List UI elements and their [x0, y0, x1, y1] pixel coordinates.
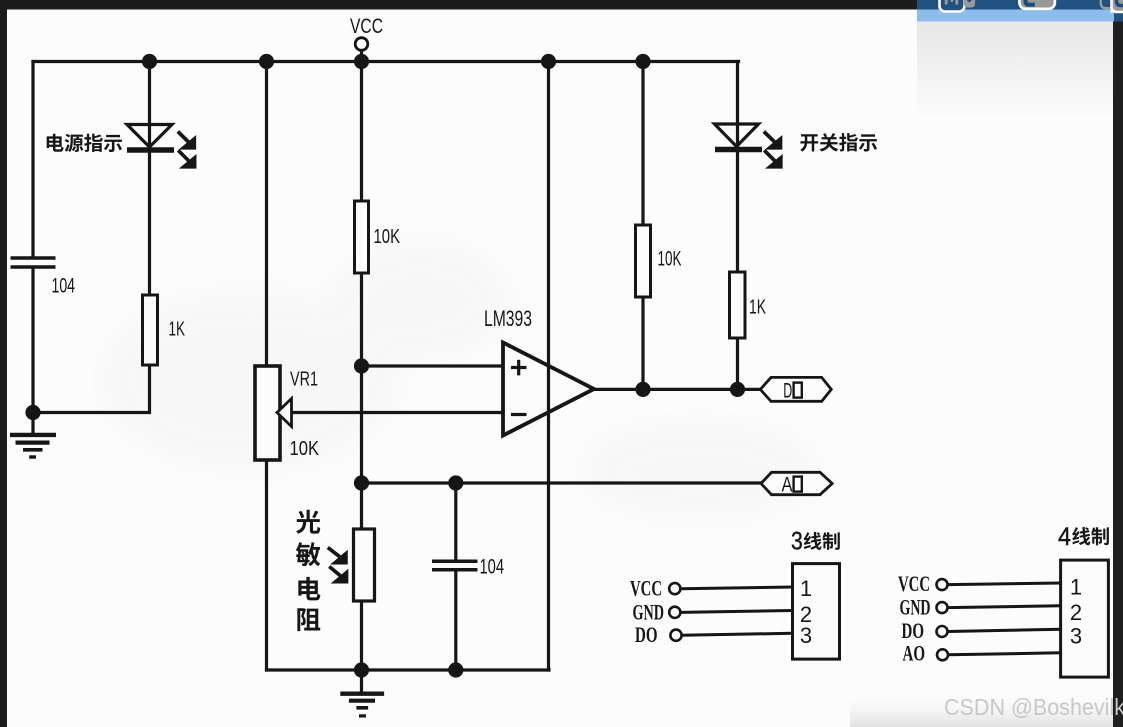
junction rail / op-amp power [541, 54, 556, 69]
wire LED D1 branch [148, 62, 151, 296]
svg-text:AO: AO [903, 641, 926, 666]
potentiometer VR1 body [255, 366, 280, 460]
svg-text:VCC: VCC [630, 576, 662, 601]
svg-text:3: 3 [800, 623, 812, 648]
junction bottom rail / C2 [448, 662, 463, 677]
wire VCC rail [33, 60, 739, 63]
wire J2 GND [948, 606, 1061, 608]
svg-text:A: A [782, 473, 794, 497]
junction rail / LED D1 [142, 54, 157, 69]
wire J1 GND [681, 611, 793, 613]
node AO tag [761, 472, 832, 494]
potentiometer VR1 wiper arrow [277, 399, 292, 427]
LED D1 cathode bar [127, 147, 174, 153]
connector J2 terminal AO [937, 649, 948, 660]
svg-text:10K: 10K [290, 438, 320, 460]
wire AO output [362, 481, 762, 484]
connector J1 3-wire box [793, 564, 840, 660]
junction DO / R4 [730, 382, 745, 397]
wire op-amp power feed [547, 62, 550, 671]
photoresistor light arrows [328, 548, 346, 563]
junction AO node [354, 475, 369, 490]
wire J1 DO [682, 633, 793, 635]
wire DO output [594, 388, 760, 391]
LED D1 triangle [127, 125, 172, 148]
wire C2 branch [454, 483, 457, 670]
connector J2 terminal GND [937, 602, 948, 613]
svg-text:CSDN @Boshevilk: CSDN @Boshevilk [944, 694, 1123, 720]
LED D2 light arrows [764, 132, 781, 148]
svg-text:GND: GND [633, 600, 665, 625]
svg-text:VCC: VCC [898, 571, 930, 596]
junction non-inverting input node [354, 358, 369, 373]
label 光敏电阻 [296, 510, 321, 631]
svg-text:3: 3 [1070, 624, 1082, 649]
svg-text:2: 2 [1070, 600, 1082, 625]
svg-text:104: 104 [480, 556, 505, 579]
wire non-inverting input [362, 364, 504, 367]
svg-text:DO: DO [902, 618, 925, 643]
wire R3 branch [641, 62, 644, 390]
connector J2 terminal VCC [937, 579, 948, 590]
ground GND2 [340, 694, 384, 716]
LED D2 triangle [715, 124, 759, 147]
capacitor C2 104 plates [432, 561, 478, 569]
toolbar icon 3 [1101, 0, 1123, 12]
ground GND1 [10, 435, 56, 457]
resistor R2 10K [355, 201, 369, 273]
wire J2 AO [948, 653, 1061, 655]
wire J2 DO [948, 629, 1061, 631]
junction bottom rail / LDR [354, 662, 369, 677]
svg-text:VCC: VCC [350, 15, 383, 38]
connector J1 terminal DO [670, 630, 681, 641]
resistor R1 1K [143, 295, 158, 365]
toolbar [0, 0, 919, 10]
junction ground node left [25, 405, 40, 420]
svg-text:1K: 1K [169, 319, 186, 341]
wire VCC middle branch [360, 51, 363, 692]
connector J1 terminal GND [669, 607, 680, 618]
node DO tag [760, 377, 831, 401]
junction rail / VCC node [354, 54, 369, 69]
svg-text:3: 3 [791, 528, 803, 556]
junction AO / C2 [448, 475, 463, 490]
LED D2 cathode bar [715, 147, 762, 153]
node VCC terminal [355, 38, 368, 51]
toolbar icon 1 [940, 0, 976, 12]
junction rail / VR1 [259, 54, 274, 69]
wire bottom rail [267, 668, 550, 671]
svg-text:GND: GND [900, 595, 931, 620]
photoresistor LDR body [354, 529, 375, 601]
label 开关指示 [800, 133, 877, 152]
svg-text:4: 4 [1058, 523, 1071, 551]
svg-text:10K: 10K [374, 226, 401, 248]
junction rail / R3 [635, 54, 650, 69]
wire J1 VCC [681, 587, 793, 589]
svg-text:LM393: LM393 [484, 306, 532, 331]
resistor R4 1K [730, 272, 746, 338]
op-amp U1 LM393 [503, 343, 594, 436]
label 电源指示 [47, 134, 122, 152]
svg-text:DO: DO [635, 622, 658, 647]
svg-text:104: 104 [52, 274, 76, 298]
wire R1 to ground node [33, 365, 150, 413]
toolbar icon 2 [1019, 0, 1055, 9]
connector J2 4-wire box [1061, 560, 1109, 677]
svg-text:1: 1 [1070, 575, 1082, 600]
wire LED D2 / R4 branch [736, 62, 739, 390]
resistor R3 10K [636, 225, 651, 297]
wire J2 VCC [948, 583, 1061, 585]
svg-text:D: D [783, 379, 792, 403]
op-amp plus input marker [511, 360, 527, 376]
connector J2 terminal DO [937, 626, 948, 637]
connector J1 terminal VCC [669, 583, 680, 594]
svg-text:10K: 10K [658, 248, 682, 271]
wire inverting input from VR1 wiper [278, 411, 503, 414]
svg-text:1K: 1K [749, 297, 766, 319]
wire VR1 branch [265, 62, 268, 671]
wire left branch [31, 62, 34, 434]
op-amp minus input marker [511, 413, 527, 416]
capacitor C1 104 plates [11, 258, 56, 267]
svg-text:VR1: VR1 [290, 369, 318, 391]
junction DO / R3 [635, 382, 650, 397]
LED D1 light arrows [178, 132, 195, 148]
svg-text:1: 1 [800, 576, 812, 601]
